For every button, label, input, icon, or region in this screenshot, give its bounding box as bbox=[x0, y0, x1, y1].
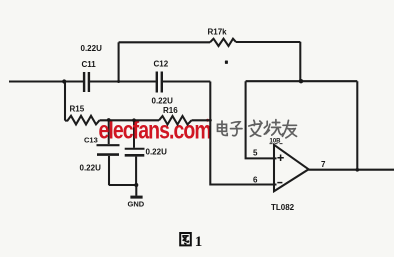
svg-text:0.22U: 0.22U bbox=[152, 96, 174, 105]
svg-text:1: 1 bbox=[195, 234, 203, 250]
svg-text:0.22U: 0.22U bbox=[81, 44, 103, 53]
svg-text:0.22U: 0.22U bbox=[80, 163, 102, 172]
svg-text:C11: C11 bbox=[82, 60, 97, 69]
svg-text:C13: C13 bbox=[84, 135, 98, 144]
svg-text:R15: R15 bbox=[70, 105, 85, 114]
svg-text:GND: GND bbox=[128, 199, 145, 208]
svg-text:TL082: TL082 bbox=[271, 203, 295, 212]
svg-text:C12: C12 bbox=[154, 59, 169, 68]
svg-text:5: 5 bbox=[253, 149, 258, 158]
svg-text:6: 6 bbox=[253, 176, 258, 185]
svg-text:R17k: R17k bbox=[208, 28, 228, 37]
svg-text:0.22U: 0.22U bbox=[146, 147, 168, 156]
svg-text:R16: R16 bbox=[163, 106, 178, 115]
svg-text:7: 7 bbox=[321, 160, 326, 169]
